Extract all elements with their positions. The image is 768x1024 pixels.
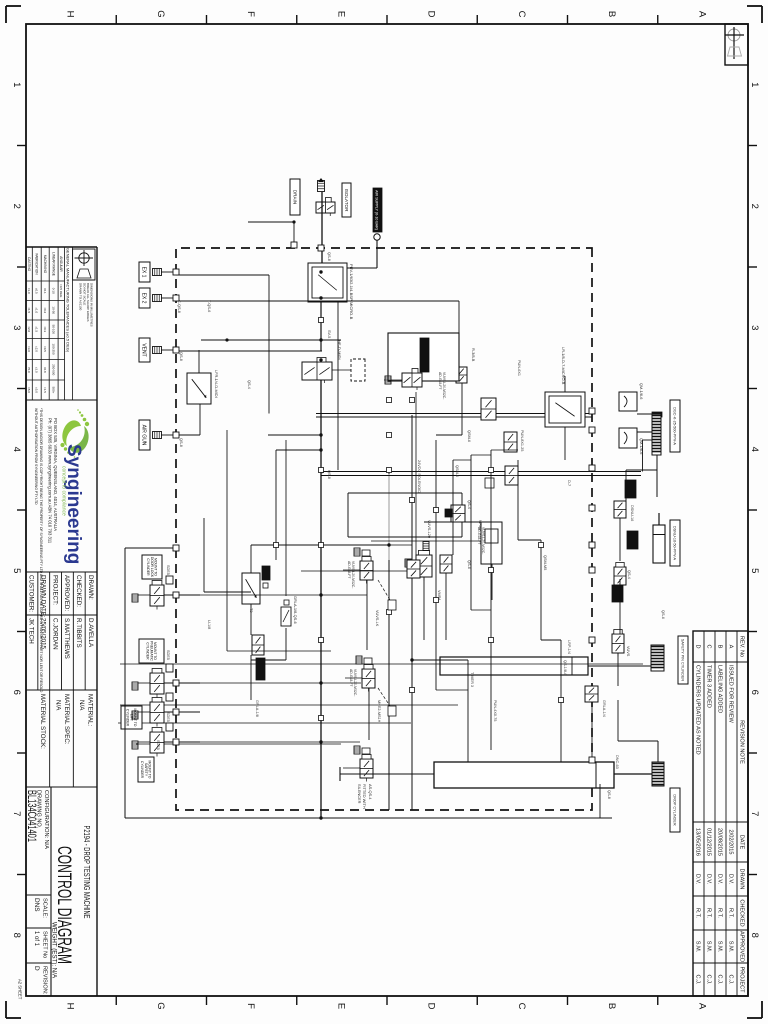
svg-text:CUSTOMER:: CUSTOMER:	[28, 575, 35, 612]
svg-text:R.T.: R.T.	[706, 908, 712, 918]
svg-text:±3.0: ±3.0	[34, 367, 38, 373]
svg-text:3: 3	[11, 325, 22, 330]
svg-text:SDE5: SDE5	[166, 712, 170, 722]
svg-text:PUN-6X1: PUN-6X1	[517, 360, 521, 376]
svg-text:DSNU-16: DSNU-16	[630, 505, 634, 521]
svg-text:concept to compliance: concept to compliance	[61, 466, 67, 516]
svg-text:±1.5: ±1.5	[43, 387, 47, 393]
svg-text:AIR SUPPLY (6-10 BAR): AIR SUPPLY (6-10 BAR)	[375, 190, 379, 230]
svg-text:1: 1	[749, 82, 760, 87]
svg-text:E: E	[335, 1003, 346, 1009]
svg-text:G: G	[155, 10, 166, 17]
svg-text:SDE5: SDE5	[166, 650, 170, 660]
svg-text:QSM-6: QSM-6	[455, 465, 459, 477]
svg-text:DO NOT SCALE: DO NOT SCALE	[82, 283, 86, 305]
svg-text:SDE5: SDE5	[156, 740, 160, 750]
svg-text:±0.3: ±0.3	[43, 326, 47, 332]
svg-text:MHE2-MS1H: MHE2-MS1H	[377, 700, 381, 723]
svg-text:DNS: DNS	[33, 898, 40, 912]
svg-text:VUVS-L20-M32C-: VUVS-L20-M32C-	[353, 669, 357, 696]
svg-text:DRAWN TO AS1100: DRAWN TO AS1100	[79, 283, 83, 311]
svg-text:SDE5: SDE5	[166, 565, 170, 575]
svg-text:C: C	[516, 1003, 527, 1010]
svg-text:GRLA-1/4: GRLA-1/4	[602, 700, 606, 717]
svg-text:6: 6	[749, 690, 760, 695]
svg-text:LABELING ADDED: LABELING ADDED	[717, 665, 723, 713]
svg-text:H: H	[65, 11, 76, 18]
svg-text:0-10: 0-10	[51, 288, 55, 294]
svg-text:ISOLATOR: ISOLATOR	[344, 189, 349, 212]
svg-text:CYLINDER: CYLINDER	[146, 642, 150, 660]
svg-text:±0.5: ±0.5	[34, 288, 38, 294]
svg-text:±1.5: ±1.5	[34, 326, 38, 332]
svg-text:1: 1	[11, 82, 22, 87]
svg-text:R.T.: R.T.	[728, 908, 734, 918]
svg-text:C.J.: C.J.	[717, 975, 723, 985]
svg-text:AS-QS-4: AS-QS-4	[368, 784, 373, 800]
svg-text:TIMER 3: TIMER 3	[470, 672, 474, 687]
svg-text:REVISION NOTE: REVISION NOTE	[739, 720, 745, 764]
svg-text:R.TIBBITS: R.TIBBITS	[75, 618, 82, 648]
svg-text:±8.0: ±8.0	[27, 387, 31, 393]
svg-text:PO BOX 535, VIRGINIA, QUEENSLA: PO BOX 535, VIRGINIA, QUEENSLAND, 4014, …	[53, 418, 58, 531]
svg-text:MACHINING: MACHINING	[43, 255, 47, 274]
svg-text:*THIS DESIGN AND/OR DRAWING IS: *THIS DESIGN AND/OR DRAWING IS COPYRIGHT…	[39, 408, 43, 693]
svg-text:QS-6: QS-6	[467, 560, 471, 569]
svg-text:APPROVED:: APPROVED:	[63, 575, 70, 611]
svg-text:DGC-K-25-500-PPV-A: DGC-K-25-500-PPV-A	[673, 407, 677, 445]
svg-text:DROP CYLINDER: DROP CYLINDER	[673, 794, 677, 825]
svg-text:CONFIGURATION: N/A: CONFIGURATION: N/A	[43, 790, 49, 849]
svg-text:ISSUED FOR REVIEW: ISSUED FOR REVIEW	[728, 665, 734, 724]
svg-text:7: 7	[749, 811, 760, 816]
svg-text:QS-8: QS-8	[327, 470, 331, 479]
svg-text:4: 4	[11, 447, 22, 452]
svg-text:VMPA: VMPA	[437, 590, 441, 601]
svg-text:SV-5: SV-5	[327, 330, 331, 338]
svg-text:DATE: DATE	[739, 835, 745, 850]
svg-text:FABRICATION: FABRICATION	[34, 253, 38, 275]
svg-text:QS-8: QS-8	[179, 352, 183, 361]
svg-text:R-3/8-B: R-3/8-B	[471, 348, 476, 362]
svg-text:DRAWN DATE:: DRAWN DATE:	[39, 575, 46, 618]
svg-text:±0.5 DEG: ±0.5 DEG	[59, 284, 63, 298]
svg-text:1 of 1: 1 of 1	[33, 931, 39, 947]
svg-text:APPROVED: APPROVED	[739, 931, 745, 962]
svg-text:C-QS-8: C-QS-8	[177, 300, 181, 313]
svg-text:CHECKED: CHECKED	[739, 899, 745, 926]
svg-text:DOOR LOCK: DOOR LOCK	[150, 557, 154, 578]
svg-text:SCALE:: SCALE:	[42, 898, 48, 918]
svg-text:B: B	[606, 11, 617, 17]
svg-text:S.M.: S.M.	[728, 941, 734, 953]
svg-text:C.J.: C.J.	[728, 975, 734, 985]
svg-text:C.JORDAN: C.JORDAN	[51, 618, 58, 650]
svg-text:DSNU-16-50-PPV-A: DSNU-16-50-PPV-A	[673, 526, 677, 561]
svg-text:BREAK ALL SHARP EDGES: BREAK ALL SHARP EDGES	[86, 283, 90, 322]
svg-text:2: 2	[11, 204, 22, 209]
svg-text:WEIGHT (EST): N/A: WEIGHT (EST): N/A	[51, 922, 58, 979]
svg-text:DRAIN: DRAIN	[292, 190, 297, 204]
svg-text:MOUNT TO: MOUNT TO	[154, 558, 158, 576]
svg-text:MATERIAL:: MATERIAL:	[87, 694, 94, 726]
svg-text:D.AVELLA: D.AVELLA	[87, 618, 94, 648]
svg-text:T3: T3	[249, 608, 253, 612]
svg-text:F: F	[245, 1003, 256, 1009]
svg-text:DRAWN: DRAWN	[739, 869, 745, 890]
svg-text:U-1/8: U-1/8	[207, 620, 211, 629]
svg-text:S.M.: S.M.	[695, 941, 701, 953]
svg-text:SAFETY: SAFETY	[144, 763, 148, 777]
svg-text:MOUNT TO: MOUNT TO	[153, 642, 157, 660]
svg-text:QS-8: QS-8	[607, 790, 611, 799]
svg-text:N/A: N/A	[78, 700, 85, 711]
svg-text:MOUNT TO: MOUNT TO	[148, 761, 152, 779]
svg-text:AD-G18-F7: AD-G18-F7	[477, 527, 481, 544]
svg-text:6: 6	[11, 690, 22, 695]
svg-text:REVISION:: REVISION:	[42, 966, 48, 995]
svg-text:CYLINDERS UPDATED AS NOTED: CYLINDERS UPDATED AS NOTED	[695, 665, 701, 755]
svg-text:B: B	[606, 1003, 617, 1009]
svg-text:QSM-6: QSM-6	[467, 430, 471, 442]
svg-text:T-QS-6: T-QS-6	[207, 300, 211, 312]
svg-text:DRAWN:: DRAWN:	[87, 575, 94, 600]
svg-text:PROJECT:: PROJECT:	[51, 575, 58, 605]
svg-text:±0.8: ±0.8	[43, 367, 47, 373]
svg-text:D.V.: D.V.	[706, 874, 712, 885]
svg-text:01/12/2015: 01/12/2015	[706, 828, 712, 856]
svg-text:PROJECT: PROJECT	[739, 966, 745, 993]
svg-text:SILENCER: SILENCER	[357, 784, 362, 804]
svg-text:C.J.: C.J.	[706, 975, 712, 985]
svg-text:BL134C041401: BL134C041401	[25, 790, 39, 842]
svg-text:CYLINDER: CYLINDER	[140, 761, 144, 779]
svg-text:VUVS-LK: VUVS-LK	[375, 610, 379, 627]
svg-text:QSM-M5: QSM-M5	[543, 555, 547, 570]
svg-text:5: 5	[749, 568, 760, 573]
svg-text:QS-8: QS-8	[179, 438, 183, 447]
svg-text:SAFETY PIN CYLINDER: SAFETY PIN CYLINDER	[681, 639, 685, 682]
svg-text:S.MATTHEWS: S.MATTHEWS	[63, 618, 70, 659]
svg-text:QS-6: QS-6	[661, 610, 665, 619]
svg-text:QS-4: QS-4	[247, 380, 251, 389]
svg-text:D: D	[426, 11, 437, 18]
svg-text:D.V.: D.V.	[695, 874, 701, 885]
svg-text:CYLINDER: CYLINDER	[126, 709, 130, 727]
svg-text:LINEAR RANGE: LINEAR RANGE	[51, 252, 55, 276]
svg-text:A: A	[696, 11, 707, 18]
svg-text:±3.0: ±3.0	[27, 346, 31, 352]
svg-text:C.J.: C.J.	[695, 975, 701, 985]
svg-text:QS-4: QS-4	[467, 500, 471, 509]
svg-text:PUN-4X0.75: PUN-4X0.75	[493, 700, 497, 721]
svg-text:FITTED WITH: FITTED WITH	[362, 784, 367, 809]
svg-text:D: D	[695, 644, 701, 648]
svg-text:D-7: D-7	[567, 480, 571, 486]
svg-text:R.T.: R.T.	[695, 908, 701, 918]
svg-text:AIR GUN: AIR GUN	[141, 425, 147, 446]
svg-text:SHEET No: SHEET No	[42, 931, 48, 958]
svg-text:±0.1: ±0.1	[43, 288, 47, 294]
svg-text:QS-1/8-6: QS-1/8-6	[563, 660, 567, 675]
svg-text:VUVS-L20: VUVS-L20	[427, 520, 431, 538]
svg-text:VUVS-L20-M32C-: VUVS-L20-M32C-	[351, 561, 355, 588]
svg-text:A: A	[696, 1003, 707, 1010]
svg-text:MATERIAL STOCK:: MATERIAL STOCK:	[39, 694, 46, 749]
svg-text:QM-1/8-6: QM-1/8-6	[639, 438, 644, 454]
svg-text:QM-1/8-6: QM-1/8-6	[639, 383, 644, 399]
svg-text:±5.0: ±5.0	[27, 367, 31, 373]
svg-text:CASTING: CASTING	[27, 257, 31, 272]
svg-text:4: 4	[749, 447, 760, 452]
svg-text:LRP-1/4: LRP-1/4	[567, 640, 571, 654]
svg-text:AD-G18-F7: AD-G18-F7	[349, 669, 353, 686]
svg-text:DIMENSIONS IN MILLIMETRES: DIMENSIONS IN MILLIMETRES	[90, 283, 94, 327]
svg-text:500+: 500+	[51, 387, 55, 394]
svg-text:D: D	[33, 966, 40, 971]
svg-text:CYLINDER: CYLINDER	[146, 558, 150, 576]
svg-text:P2194 - DROP TESTING MACHINE: P2194 - DROP TESTING MACHINE	[82, 826, 92, 919]
svg-text:D: D	[426, 1003, 437, 1010]
svg-text:E: E	[335, 11, 346, 17]
svg-text:±0.2: ±0.2	[43, 307, 47, 313]
svg-text:D.V.: D.V.	[728, 874, 734, 885]
svg-text:2/02/2015: 2/02/2015	[728, 830, 734, 855]
svg-text:JK TECH: JK TECH	[28, 618, 35, 644]
svg-text:±2.0: ±2.0	[34, 346, 38, 352]
svg-text:F: F	[245, 11, 256, 17]
svg-text:8: 8	[749, 933, 760, 938]
svg-text:±5.0: ±5.0	[34, 387, 38, 393]
svg-text:DNC-63: DNC-63	[615, 755, 619, 769]
svg-text:GRLA-1/8: GRLA-1/8	[255, 700, 259, 717]
svg-text:±1.0: ±1.0	[27, 288, 31, 294]
svg-text:S.M.: S.M.	[706, 941, 712, 953]
svg-text:7: 7	[11, 811, 22, 816]
svg-text:QS-8: QS-8	[327, 252, 331, 261]
svg-text:250-500: 250-500	[51, 364, 55, 375]
svg-text:VUVS-L20-M32C-: VUVS-L20-M32C-	[442, 372, 446, 399]
svg-text:MATERIAL SPEC:: MATERIAL SPEC:	[63, 694, 70, 745]
svg-text:25/05/2015: 25/05/2015	[39, 618, 46, 650]
svg-text:CHECKED:: CHECKED:	[75, 575, 82, 607]
svg-text:2: 2	[749, 204, 760, 209]
svg-text:C: C	[516, 11, 527, 18]
svg-text:D.V.: D.V.	[717, 874, 723, 885]
svg-text:GENERAL MANUFACTURING TOLERANC: GENERAL MANUFACTURING TOLERANCES (±0.5 D…	[66, 248, 71, 353]
svg-text:±2.0: ±2.0	[27, 326, 31, 332]
svg-text:GRLA-1/8-QS-6: GRLA-1/8-QS-6	[293, 596, 298, 624]
svg-text:5: 5	[11, 568, 22, 573]
svg-text:24VDC SOLENOID: 24VDC SOLENOID	[417, 460, 421, 493]
svg-text:WITHOUT AUTHORISATION FROM SYN: WITHOUT AUTHORISATION FROM SYNGINEERING …	[34, 408, 38, 505]
svg-text:8: 8	[11, 933, 22, 938]
svg-text:20/08/2015: 20/08/2015	[717, 828, 723, 856]
svg-text:PUN-8X1.25: PUN-8X1.25	[520, 430, 524, 451]
svg-text:3: 3	[749, 325, 760, 330]
svg-text:PRV-1/63/2-1/4-BSP-MICRO-B: PRV-1/63/2-1/4-BSP-MICRO-B	[349, 264, 354, 320]
svg-text:±1.0: ±1.0	[34, 307, 38, 313]
svg-text:A: A	[728, 645, 734, 649]
svg-text:ANGULAR: ANGULAR	[59, 256, 63, 272]
svg-text:AD-G18-F7: AD-G18-F7	[438, 372, 442, 389]
svg-text:EX 1: EX 1	[141, 267, 147, 278]
svg-text:B: B	[717, 645, 723, 649]
svg-text:TIMER 3 ADDED: TIMER 3 ADDED	[706, 665, 712, 708]
svg-text:N/A: N/A	[54, 700, 61, 711]
svg-text:100-250: 100-250	[51, 343, 55, 354]
svg-text:50-100: 50-100	[51, 325, 55, 335]
svg-text:C: C	[706, 644, 712, 648]
svg-text:QS-4: QS-4	[627, 570, 631, 579]
svg-text:Ph: (07) 3865 6033 www.syngi: Ph: (07) 3865 6033 www.syngineering.com.…	[48, 418, 53, 544]
svg-text:±1.5: ±1.5	[27, 307, 31, 313]
svg-text:R.T.: R.T.	[717, 908, 723, 918]
svg-text:EX 2: EX 2	[141, 293, 147, 304]
svg-text:PNEUMATIC: PNEUMATIC	[149, 641, 153, 661]
svg-text:VUVS-L20-M32C-: VUVS-L20-M32C-	[481, 527, 485, 554]
svg-text:H: H	[65, 1003, 76, 1010]
svg-text:±0.5: ±0.5	[43, 346, 47, 352]
svg-text:LFR-1/4-D-MIDI: LFR-1/4-D-MIDI	[214, 370, 219, 398]
svg-text:VENT: VENT	[141, 343, 147, 356]
svg-text:VUVS: VUVS	[626, 646, 630, 657]
svg-text:AD-G18-F7: AD-G18-F7	[347, 561, 351, 578]
svg-text:A2 SHEET: A2 SHEET	[18, 979, 23, 1000]
svg-text:G: G	[155, 1002, 166, 1009]
svg-text:10-50: 10-50	[51, 306, 55, 314]
svg-text:S.M.: S.M.	[717, 941, 723, 953]
svg-text:13/05/2016: 13/05/2016	[695, 828, 701, 856]
svg-text:REV. No: REV. No	[739, 636, 745, 657]
